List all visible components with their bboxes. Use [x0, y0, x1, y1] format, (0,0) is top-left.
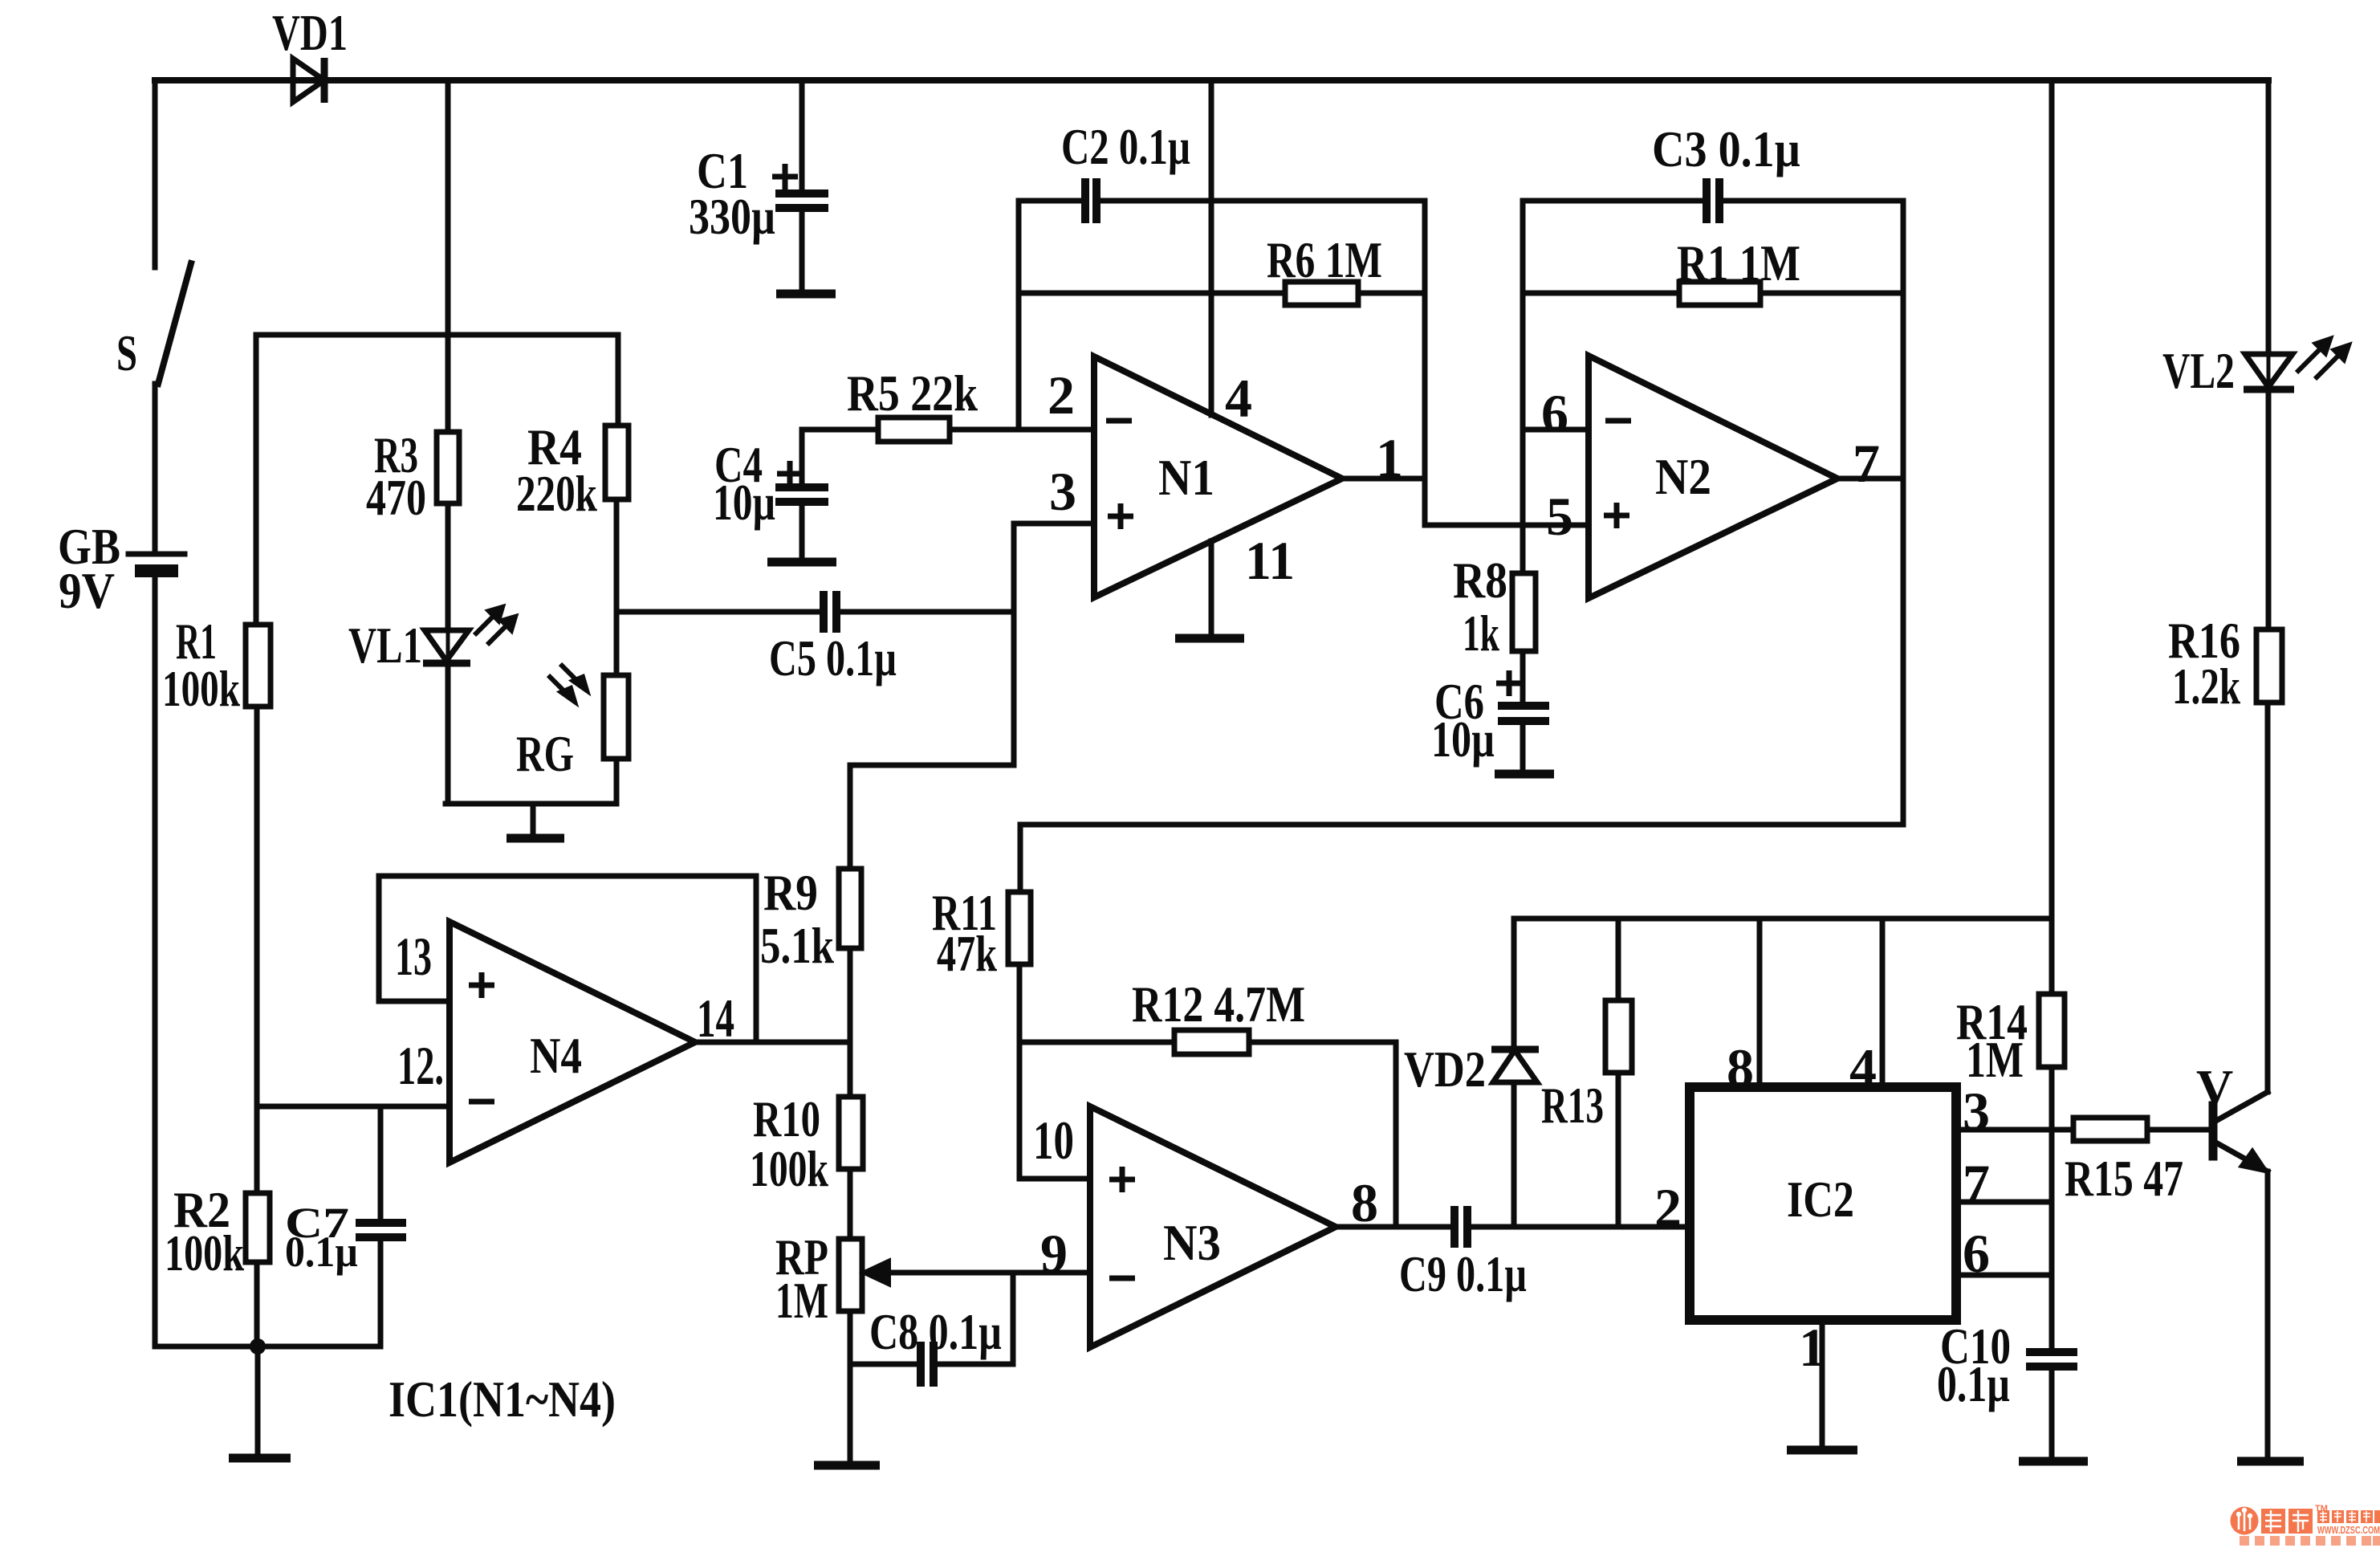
svg-text:7: 7: [1963, 1153, 1990, 1214]
svg-text:VD2: VD2: [1404, 1041, 1486, 1098]
svg-text:R6 1M: R6 1M: [1267, 231, 1382, 288]
svg-text:3: 3: [1963, 1081, 1990, 1142]
svg-text:10µ: 10µ: [1431, 711, 1495, 768]
svg-text:N2: N2: [1655, 448, 1711, 505]
svg-text:C3 0.1µ: C3 0.1µ: [1652, 120, 1800, 177]
svg-text:8: 8: [1351, 1172, 1378, 1233]
svg-text:10µ: 10µ: [713, 474, 775, 531]
svg-text:7: 7: [1853, 433, 1880, 494]
svg-text:11: 11: [1245, 530, 1295, 591]
svg-text:N4: N4: [530, 1027, 582, 1084]
svg-text:C8 0.1µ: C8 0.1µ: [869, 1303, 1002, 1360]
svg-text:N1: N1: [1158, 449, 1214, 506]
svg-text:0.1µ: 0.1µ: [1937, 1355, 2010, 1412]
svg-text:C5 0.1µ: C5 0.1µ: [769, 629, 897, 686]
svg-text:9V: 9V: [59, 562, 115, 619]
svg-text:3: 3: [1049, 461, 1076, 522]
svg-text:1M: 1M: [1966, 1031, 2024, 1088]
svg-text:VL1: VL1: [348, 617, 422, 674]
svg-text:0.1µ: 0.1µ: [285, 1228, 358, 1276]
svg-text:10: 10: [1033, 1110, 1074, 1171]
svg-text:100k: 100k: [750, 1140, 828, 1197]
svg-text:2: 2: [1654, 1177, 1682, 1238]
svg-text:1.2k: 1.2k: [2172, 658, 2240, 715]
svg-text:V: V: [2196, 1059, 2233, 1116]
svg-text:VD1: VD1: [272, 4, 348, 61]
svg-text:12.: 12.: [397, 1035, 444, 1096]
svg-text:6: 6: [1541, 383, 1568, 444]
svg-text:9: 9: [1040, 1223, 1068, 1284]
svg-text:C2 0.1µ: C2 0.1µ: [1061, 118, 1190, 175]
svg-text:47k: 47k: [937, 925, 997, 982]
svg-text:5.1k: 5.1k: [760, 917, 834, 974]
svg-text:4: 4: [1849, 1037, 1877, 1098]
svg-text:R13: R13: [1541, 1077, 1604, 1134]
svg-text:330µ: 330µ: [689, 188, 775, 245]
svg-text:R12 4.7M: R12 4.7M: [1132, 976, 1305, 1033]
svg-text:14: 14: [697, 988, 734, 1049]
svg-text:6: 6: [1963, 1223, 1990, 1284]
svg-text:1M: 1M: [775, 1272, 828, 1329]
svg-text:R8: R8: [1453, 552, 1507, 609]
svg-text:WWW.DZSC.COM: WWW.DZSC.COM: [2317, 1525, 2380, 1536]
svg-text:R9: R9: [763, 864, 818, 921]
svg-text:5: 5: [1546, 486, 1573, 547]
svg-text:IC1(N1~N4): IC1(N1~N4): [389, 1371, 616, 1428]
svg-text:N3: N3: [1163, 1214, 1221, 1271]
svg-text:100k: 100k: [165, 1224, 244, 1281]
svg-text:RG: RG: [516, 725, 574, 782]
svg-text:100k: 100k: [162, 660, 240, 717]
svg-text:220k: 220k: [516, 465, 597, 522]
svg-text:1: 1: [1376, 427, 1403, 488]
svg-text:R15 47: R15 47: [2065, 1150, 2183, 1207]
svg-text:VL2: VL2: [2162, 342, 2235, 399]
svg-text:13: 13: [395, 926, 432, 987]
svg-text:S: S: [116, 324, 137, 381]
svg-text:R10: R10: [753, 1090, 820, 1147]
svg-text:8: 8: [1727, 1037, 1754, 1098]
svg-text:2: 2: [1048, 365, 1075, 426]
svg-text:R5 22k: R5 22k: [847, 365, 978, 422]
svg-text:1k: 1k: [1463, 605, 1499, 662]
svg-text:470: 470: [366, 469, 426, 526]
svg-text:4: 4: [1225, 368, 1252, 429]
svg-text:R1 1M: R1 1M: [1677, 234, 1800, 291]
svg-text:C9 0.1µ: C9 0.1µ: [1399, 1245, 1527, 1302]
svg-text:1: 1: [1799, 1317, 1826, 1378]
svg-text:IC2: IC2: [1787, 1171, 1854, 1228]
